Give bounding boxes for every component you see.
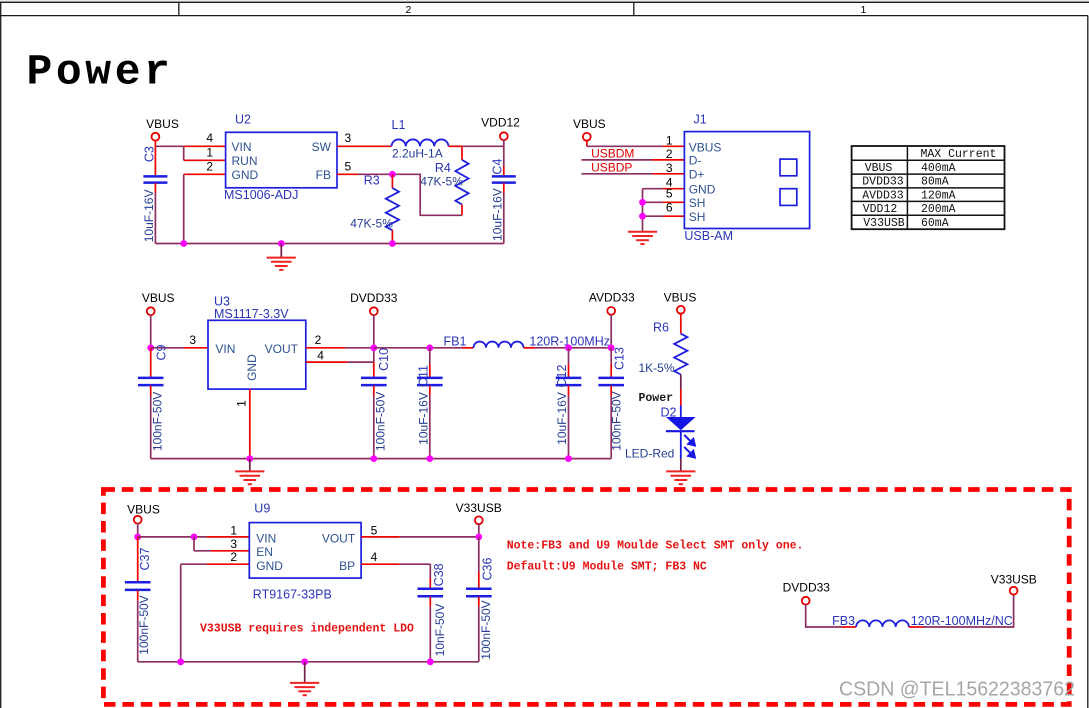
svg-text:10nF-50V: 10nF-50V — [433, 604, 447, 657]
junction AVDD33/C13 — [608, 344, 615, 351]
svg-text:4: 4 — [206, 131, 213, 145]
junction VIN/EN — [191, 534, 198, 541]
svg-text:4: 4 — [317, 349, 324, 363]
svg-text:VOUT: VOUT — [265, 342, 299, 356]
junction rail/U2gnd — [180, 240, 187, 247]
resistor R4 — [420, 146, 468, 215]
svg-text:SW: SW — [312, 140, 332, 154]
ground (under J1) — [628, 230, 657, 244]
svg-text:VBUS: VBUS — [573, 117, 606, 131]
svg-text:DVDD33: DVDD33 — [862, 176, 904, 189]
junction J1 SH pin5 — [639, 199, 646, 206]
svg-text:MS1006-ADJ: MS1006-ADJ — [224, 188, 298, 202]
capacitor C12 — [555, 348, 581, 459]
svg-text:6: 6 — [666, 200, 673, 214]
wire U2 GND pin to rail — [184, 174, 226, 243]
svg-text:Power: Power — [639, 392, 674, 405]
svg-text:GND: GND — [245, 354, 259, 381]
ground (under U2) — [267, 244, 296, 270]
svg-text:SH: SH — [689, 210, 706, 224]
capacitor C11 — [416, 348, 442, 459]
svg-text:3: 3 — [230, 537, 237, 551]
svg-text:80mA: 80mA — [921, 176, 949, 189]
svg-text:J1: J1 — [694, 112, 707, 126]
svg-text:10uF-16V: 10uF-16V — [416, 392, 430, 445]
dashed highlight box — [103, 490, 1069, 705]
junction rail/C11 — [426, 455, 433, 462]
svg-text:FB1: FB1 — [444, 335, 467, 349]
svg-text:200mA: 200mA — [921, 203, 956, 216]
svg-text:1: 1 — [861, 4, 867, 16]
junction C12 — [565, 344, 572, 351]
capacitor C10 — [361, 348, 391, 459]
junction rail/U9gnd — [177, 658, 184, 665]
junction J1 SH pin6 — [639, 213, 646, 220]
node VBUS (R6 port) — [664, 291, 697, 334]
svg-text:5: 5 — [371, 524, 378, 538]
svg-text:C37: C37 — [138, 547, 152, 570]
svg-text:VBUS: VBUS — [865, 162, 893, 175]
svg-text:VIN: VIN — [232, 140, 252, 154]
svg-text:100nF-50V: 100nF-50V — [479, 600, 493, 659]
svg-text:C4: C4 — [491, 159, 505, 175]
svg-text:VBUS: VBUS — [146, 117, 179, 131]
junction C11 — [426, 344, 433, 351]
wire R4 bottom loop to FB — [392, 174, 462, 215]
svg-text:C3: C3 — [143, 146, 157, 162]
svg-text:100nF-50V: 100nF-50V — [609, 391, 623, 450]
svg-text:VDD12: VDD12 — [863, 203, 898, 216]
node AVDD33 (port) — [589, 291, 635, 348]
svg-text:100nF-50V: 100nF-50V — [150, 392, 164, 451]
wire R6 to D2 — [680, 375, 682, 406]
svg-text:C38: C38 — [432, 563, 446, 586]
wire DVDD33 to FB3 — [806, 604, 856, 627]
svg-text:2: 2 — [666, 147, 673, 161]
svg-text:VDD12: VDD12 — [481, 115, 520, 129]
svg-text:5: 5 — [345, 159, 352, 173]
svg-text:47K-5%: 47K-5% — [420, 175, 463, 189]
svg-text:V33USB: V33USB — [991, 572, 1037, 586]
node V33USB (FB3 port) — [991, 572, 1037, 594]
svg-text:DVDD33: DVDD33 — [350, 291, 398, 305]
svg-text:Default:U9 Module SMT; FB3 NC: Default:U9 Module SMT; FB3 NC — [507, 561, 707, 574]
svg-text:3: 3 — [345, 131, 352, 145]
svg-text:120R-100MHz/NC: 120R-100MHz/NC — [911, 614, 1013, 628]
svg-text:5: 5 — [666, 187, 673, 201]
inductor L1 — [392, 118, 449, 161]
wire U3 VOUT to DVDD33 — [306, 347, 374, 349]
op-amp U3 (regulator MS1117-3.3V) — [208, 295, 306, 389]
wire ground rail (middle section) — [151, 458, 612, 460]
svg-text:10uF-16V: 10uF-16V — [555, 392, 569, 445]
svg-text:AVDD33: AVDD33 — [589, 291, 635, 305]
capacitor C9 — [138, 344, 169, 458]
svg-text:3: 3 — [189, 333, 196, 347]
junction rail/C10 — [370, 455, 377, 462]
svg-text:VIN: VIN — [215, 342, 235, 356]
node DVDD33 (FB3 port) — [783, 580, 831, 604]
svg-text:R3: R3 — [364, 173, 380, 187]
node VDD12 (port) — [481, 115, 520, 146]
svg-text:2: 2 — [315, 333, 322, 347]
svg-text:GND: GND — [232, 168, 259, 182]
junction VBUS/C37 — [134, 534, 141, 541]
svg-text:60mA: 60mA — [921, 217, 949, 230]
svg-text:DVDD33: DVDD33 — [783, 580, 831, 594]
svg-text:VBUS: VBUS — [142, 291, 175, 305]
svg-text:VOUT: VOUT — [322, 531, 356, 545]
J1 mounting square 2 — [780, 189, 797, 206]
svg-text:C9: C9 — [155, 344, 169, 360]
svg-text:EN: EN — [256, 545, 273, 559]
svg-text:Note:FB3 and U9 Moulde Select: Note:FB3 and U9 Moulde Select SMT only o… — [507, 540, 804, 553]
wire FB1 to AVDD33 — [524, 347, 612, 349]
svg-text:GND: GND — [689, 183, 716, 197]
ground (under U9) — [290, 662, 319, 695]
capacitor C13 — [598, 347, 626, 459]
junction rail/R3 — [389, 240, 396, 247]
capacitor C4 — [490, 146, 515, 243]
svg-text:LED-Red: LED-Red — [625, 446, 674, 460]
svg-text:RUN: RUN — [232, 154, 258, 168]
inductor FB3 — [832, 614, 1013, 628]
node V33USB (port) — [456, 501, 502, 537]
junction FB/R3 — [389, 171, 396, 178]
op-amp U2 (regulator MS1006-ADJ) — [224, 113, 337, 203]
wire U9 GND to rail — [181, 564, 250, 662]
svg-text:VBUS: VBUS — [127, 502, 160, 516]
wire ground rail (top section) — [155, 243, 503, 245]
wire U3 GND pin to rail — [249, 389, 251, 459]
junction DVDD33 — [370, 344, 377, 351]
svg-text:R4: R4 — [435, 161, 451, 175]
diode D2 LED-Red — [625, 406, 696, 472]
op-amp U9 (regulator RT9167-33PB) — [249, 502, 361, 602]
wire RUN branch — [184, 146, 226, 160]
junction V33USB/C36 — [475, 534, 482, 541]
svg-text:V33USB requires independent LD: V33USB requires independent LDO — [200, 622, 414, 635]
svg-text:C11: C11 — [416, 365, 430, 387]
junction VBUS/C9 — [147, 344, 154, 351]
svg-text:1: 1 — [206, 146, 213, 160]
node DVDD33 (port) — [350, 291, 398, 348]
svg-text:2: 2 — [230, 550, 237, 564]
table MAX Current — [852, 146, 1005, 230]
svg-text:1: 1 — [666, 133, 673, 147]
capacitor C38 — [418, 563, 447, 661]
wire J1 GND/SH to ground — [643, 189, 685, 230]
node VBUS (J1 port) — [573, 117, 606, 141]
svg-text:GND: GND — [256, 559, 283, 573]
svg-text:USB-AM: USB-AM — [684, 229, 733, 243]
wire VBUS to U3 VIN — [151, 347, 208, 349]
capacitor C37 — [125, 537, 152, 662]
resistor R6 — [639, 321, 688, 376]
svg-text:USBDP: USBDP — [591, 161, 632, 175]
wire SW to L1 — [337, 145, 392, 147]
svg-text:VIN: VIN — [256, 531, 276, 545]
svg-text:SH: SH — [689, 196, 706, 210]
wire FB to R3 — [337, 173, 358, 175]
svg-text:RT9167-33PB: RT9167-33PB — [253, 588, 332, 602]
svg-text:4: 4 — [371, 550, 378, 564]
svg-text:R6: R6 — [653, 321, 669, 335]
junction rail/C12 — [565, 455, 572, 462]
svg-text:Power: Power — [27, 48, 174, 97]
wire U9 BP to C38 — [361, 564, 430, 578]
svg-text:D+: D+ — [689, 168, 705, 182]
node VBUS (U3 port) — [142, 291, 175, 348]
svg-text:D-: D- — [689, 154, 702, 168]
svg-text:V33USB: V33USB — [456, 501, 502, 515]
svg-text:400mA: 400mA — [921, 162, 956, 175]
wire L1 to VDD12 — [449, 145, 504, 147]
svg-text:C36: C36 — [481, 557, 495, 580]
svg-text:C12: C12 — [555, 364, 569, 387]
junction rail/U3gnd — [246, 455, 253, 462]
svg-text:BP: BP — [339, 559, 355, 573]
capacitor C3 — [142, 146, 168, 243]
svg-text:100nF-50V: 100nF-50V — [373, 392, 387, 451]
svg-text:L1: L1 — [392, 118, 406, 132]
svg-text:2: 2 — [206, 159, 213, 173]
node VBUS (U9 port) — [127, 502, 160, 537]
inductor FB1 — [444, 335, 610, 349]
ground (under D2) — [666, 471, 695, 484]
svg-text:U2: U2 — [235, 113, 251, 127]
svg-text:U9: U9 — [254, 502, 270, 516]
wire VBUS to VIN — [155, 140, 225, 146]
junction rail/C38 — [427, 658, 434, 665]
junction rail/ground — [278, 240, 285, 247]
svg-text:10uF-16V: 10uF-16V — [142, 190, 156, 243]
svg-text:FB3: FB3 — [832, 614, 855, 628]
svg-text:CSDN @TEL15622383762: CSDN @TEL15622383762 — [839, 678, 1075, 701]
junction rail/ground — [301, 658, 308, 665]
node VBUS (top left port) — [146, 117, 179, 141]
connector J1 USB-AM — [684, 112, 809, 243]
svg-text:VBUS: VBUS — [664, 291, 697, 305]
svg-text:USBDM: USBDM — [591, 147, 634, 161]
J1 mounting square 1 — [780, 159, 797, 176]
capacitor C36 — [466, 537, 495, 662]
svg-text:MAX Current: MAX Current — [921, 148, 997, 161]
svg-text:100nF-50V: 100nF-50V — [137, 595, 151, 654]
svg-text:1: 1 — [230, 524, 237, 538]
wire ground rail (U9 section) — [138, 661, 479, 663]
svg-text:3: 3 — [666, 161, 673, 175]
wire DVDD33 rail to FB1 — [374, 347, 474, 349]
wire EN branch — [194, 537, 249, 551]
wire FB3 to V33USB — [909, 594, 1014, 627]
svg-text:2: 2 — [406, 4, 412, 16]
ground (under U3) — [235, 459, 264, 485]
node USBDP — [582, 161, 685, 175]
svg-text:1: 1 — [235, 400, 249, 407]
svg-text:AVDD33: AVDD33 — [862, 190, 904, 203]
svg-text:VBUS: VBUS — [689, 140, 722, 154]
svg-text:1K-5%: 1K-5% — [639, 361, 675, 375]
wire U3 pin4 branch — [306, 348, 374, 362]
wire VBUS to U9 VIN — [138, 536, 250, 538]
svg-text:MS1117-3.3V: MS1117-3.3V — [214, 307, 289, 321]
resistor R3 — [350, 173, 399, 243]
svg-text:C10: C10 — [377, 348, 391, 371]
svg-text:2.2uH-1A: 2.2uH-1A — [392, 147, 443, 161]
svg-text:120mA: 120mA — [921, 190, 956, 203]
wire U9 VOUT to V33USB — [361, 536, 479, 538]
svg-text:47K-5%: 47K-5% — [350, 216, 393, 230]
svg-text:C13: C13 — [613, 347, 627, 370]
svg-text:V33USB: V33USB — [863, 217, 905, 230]
svg-text:FB: FB — [316, 168, 331, 182]
wire VBUS to J1 pin1 — [587, 140, 685, 146]
svg-text:10uF-16V: 10uF-16V — [490, 188, 504, 241]
node USBDM — [582, 147, 685, 161]
